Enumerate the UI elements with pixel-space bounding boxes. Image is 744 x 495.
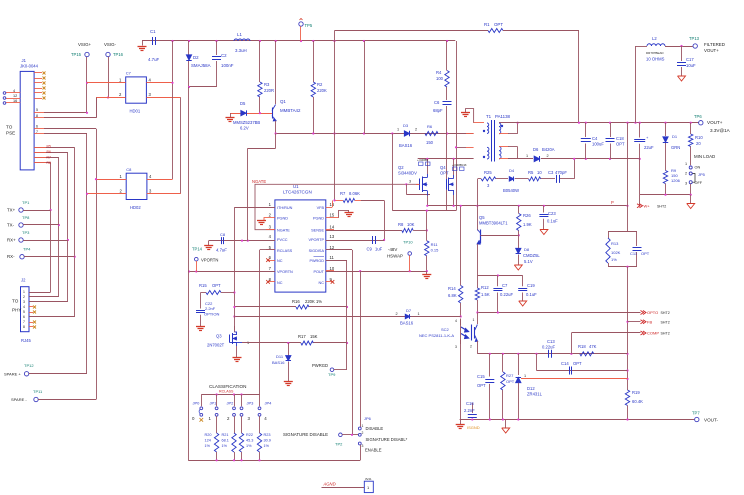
wire Q5 base bbox=[481, 235, 519, 237]
wire NGATE jog to Q2 source network bbox=[405, 183, 407, 185]
ground pin15 PGND bbox=[326, 217, 339, 219]
wire HD02 pin wires bbox=[96, 179, 126, 181]
svg-text:+-19R3B9: +-19R3B9 bbox=[417, 159, 429, 162]
capacitor C5 22uF bbox=[639, 123, 641, 138]
svg-text:VOUT+: VOUT+ bbox=[707, 120, 723, 125]
svg-text:SENSE: SENSE bbox=[311, 229, 324, 233]
svg-text:RX-: RX- bbox=[7, 254, 15, 259]
svg-text:13: 13 bbox=[330, 234, 335, 239]
svg-text:TP7: TP7 bbox=[692, 411, 700, 416]
svg-text:R1: R1 bbox=[484, 22, 490, 27]
svg-text:D4: D4 bbox=[509, 168, 515, 173]
U1 pin stubs orange bbox=[266, 207, 275, 209]
svg-text:TP16: TP16 bbox=[113, 52, 124, 57]
svg-text:VOUT-: VOUT- bbox=[704, 418, 719, 423]
svg-text:TP14: TP14 bbox=[192, 247, 203, 252]
wire SENSE R8 10K bbox=[326, 230, 402, 232]
svg-text:VSIG-: VSIG- bbox=[104, 42, 116, 47]
svg-text:J2: J2 bbox=[21, 278, 26, 283]
svg-text:CLASSIFICATION: CLASSIFICATION bbox=[209, 384, 246, 389]
wire OPTO net y=312.5 bbox=[477, 312, 640, 314]
svg-text:100: 100 bbox=[436, 76, 444, 81]
wire opto top rail y=275.5 bbox=[477, 275, 522, 277]
svg-text:5.1V: 5.1V bbox=[524, 259, 533, 264]
svg-text:2: 2 bbox=[415, 128, 417, 132]
resistor R15 OPT bbox=[201, 292, 207, 294]
svg-text:2: 2 bbox=[23, 295, 25, 299]
svg-text:2.2nF: 2.2nF bbox=[464, 408, 475, 413]
jumper JP1 bbox=[216, 395, 218, 407]
svg-text:6: 6 bbox=[23, 315, 25, 319]
svg-text:MIN LOAD: MIN LOAD bbox=[694, 154, 715, 159]
svg-text:SHT2: SHT2 bbox=[661, 332, 670, 336]
svg-text:0.22uF: 0.22uF bbox=[542, 345, 555, 350]
resistor R9 150 1206 bbox=[663, 171, 667, 184]
wire HD01 pin3 to HD02 pin3 bbox=[180, 98, 182, 194]
ground open C23 bbox=[540, 230, 548, 235]
svg-text:1%: 1% bbox=[264, 444, 270, 448]
ground input filled bbox=[142, 41, 144, 46]
J2 pin1 wire bbox=[29, 292, 36, 294]
wire FB column x=627.5 upper bbox=[627, 123, 629, 232]
svg-text:12: 12 bbox=[13, 94, 17, 98]
svg-text:3: 3 bbox=[455, 345, 457, 349]
svg-text:NC: NC bbox=[277, 281, 283, 285]
test point TP1 TX+ bbox=[19, 208, 23, 212]
wire R1 to output bus bbox=[578, 31, 580, 123]
wire R16 220K bbox=[234, 306, 296, 308]
wire D12 ref to FB column red bbox=[521, 378, 628, 380]
svg-text:22uF: 22uF bbox=[644, 145, 654, 150]
svg-text:470pF: 470pF bbox=[555, 170, 567, 175]
svg-text:C8: C8 bbox=[126, 167, 132, 172]
svg-text:MMSZ5237BB: MMSZ5237BB bbox=[233, 120, 260, 125]
svg-text:TX+: TX+ bbox=[7, 208, 16, 213]
svg-text:DR79?BEAD: DR79?BEAD bbox=[646, 51, 664, 55]
ground PVCC filled bbox=[208, 241, 210, 245]
svg-text:1%: 1% bbox=[611, 257, 617, 262]
test point TP9 PWRGD bbox=[330, 368, 334, 372]
svg-text:10uF: 10uF bbox=[686, 63, 696, 68]
svg-text:C7: C7 bbox=[502, 283, 508, 288]
svg-text:SHT2: SHT2 bbox=[661, 320, 670, 324]
resistor R13 102K bbox=[608, 231, 637, 233]
resistor R2 bbox=[313, 41, 315, 82]
svg-text:D3: D3 bbox=[403, 123, 409, 128]
svg-text:PGND: PGND bbox=[277, 217, 288, 221]
jumper JP0 bbox=[201, 395, 203, 407]
test point TP11 SPARE- bbox=[34, 397, 38, 401]
diode D7 BAS16 wire bbox=[234, 316, 460, 318]
svg-text:150: 150 bbox=[426, 140, 434, 145]
svg-text:NC: NC bbox=[319, 281, 325, 285]
svg-text:D11: D11 bbox=[276, 354, 284, 359]
svg-text:JK0-0044: JK0-0044 bbox=[20, 64, 39, 69]
svg-text:C17: C17 bbox=[686, 57, 694, 62]
svg-text:ITH/RUN: ITH/RUN bbox=[277, 206, 293, 210]
transformer HD02 bbox=[126, 173, 147, 199]
diode D11 BAS16 bbox=[288, 343, 290, 356]
svg-text:R12: R12 bbox=[481, 285, 489, 290]
capacitor C16 2.2nF bbox=[472, 403, 474, 413]
test point TP16 VSIG- bbox=[106, 52, 110, 56]
connector J1 JK0-0044 bbox=[20, 71, 34, 169]
test point TP13 FILTERED VOUT+ bbox=[693, 44, 697, 48]
svg-text:OPT: OPT bbox=[494, 22, 503, 27]
resistor R22 45.3 1% bbox=[241, 416, 243, 433]
svg-text:R4: R4 bbox=[436, 70, 442, 75]
svg-text:P: P bbox=[611, 200, 614, 205]
svg-text:R7: R7 bbox=[47, 155, 51, 159]
svg-text:TP1: TP1 bbox=[22, 200, 30, 205]
svg-text:PGND: PGND bbox=[313, 217, 324, 221]
svg-text:Si3440DV: Si3440DV bbox=[398, 171, 417, 176]
diode D6 B420A bbox=[534, 156, 540, 162]
svg-text:R2: R2 bbox=[317, 82, 323, 87]
svg-text:OPT: OPT bbox=[212, 283, 221, 288]
ground D11 filled bbox=[284, 381, 293, 383]
J2 pin3 wire bbox=[29, 301, 36, 303]
svg-text:HSWAP: HSWAP bbox=[387, 254, 403, 259]
inductor L1 bbox=[234, 39, 250, 41]
svg-text:60.4K: 60.4K bbox=[632, 399, 643, 404]
svg-text:D7: D7 bbox=[406, 308, 412, 313]
ground T1 pin1 bbox=[466, 109, 474, 123]
svg-text:SIGDISA: SIGDISA bbox=[309, 249, 325, 253]
diode D2 zener SMAJ58A bbox=[188, 41, 190, 55]
capacitor C2 bbox=[216, 41, 218, 55]
wire D2-C2 bottom bbox=[189, 86, 217, 88]
test point TP6 VOUT+ bbox=[699, 121, 703, 125]
J1 lower data pins bbox=[34, 147, 75, 149]
svg-text:TP12: TP12 bbox=[24, 363, 34, 368]
wire source rail y=205.8 bbox=[427, 205, 628, 207]
diode D12 ZR431L bbox=[518, 354, 520, 375]
svg-text:1: 1 bbox=[23, 290, 25, 294]
svg-text:B0540W: B0540W bbox=[503, 188, 519, 193]
svg-text:BAS16: BAS16 bbox=[400, 321, 414, 326]
wire output bus VOUT+ y=122.7 dots bbox=[578, 122, 580, 124]
svg-text:R15: R15 bbox=[199, 283, 207, 288]
wire NGATE net bbox=[255, 184, 419, 229]
svg-text:JP0: JP0 bbox=[193, 401, 201, 406]
svg-text:0.22uF: 0.22uF bbox=[500, 292, 513, 297]
capacitor C8 inline bbox=[221, 237, 223, 244]
svg-text:6.8K: 6.8K bbox=[448, 293, 457, 298]
svg-text:R22: R22 bbox=[246, 433, 253, 437]
svg-text:1: 1 bbox=[362, 424, 364, 428]
svg-text:R6: R6 bbox=[47, 150, 51, 154]
test point TP5 bbox=[299, 22, 303, 26]
resistor R11 0.15 bbox=[426, 211, 428, 241]
offpage AGND bbox=[322, 487, 365, 489]
test point TP4 RX- bbox=[20, 255, 24, 259]
wire secondary gnd rail y=159 bbox=[541, 158, 640, 160]
wire T1 secondary top to output bus bbox=[499, 122, 702, 124]
svg-text:14: 14 bbox=[330, 225, 335, 230]
diode D5 zener MMSZ5237BB bbox=[230, 113, 272, 115]
capacitor C13 0.22uF inline bbox=[548, 350, 550, 358]
svg-text:NEC PS2811-1-K-A: NEC PS2811-1-K-A bbox=[419, 333, 454, 338]
svg-text:220K 1%: 220K 1% bbox=[305, 299, 322, 304]
svg-text:AGND: AGND bbox=[323, 482, 336, 487]
wire comp rail y=353.8 bbox=[477, 353, 627, 355]
svg-text:T1: T1 bbox=[486, 114, 492, 119]
wire POUT y=271.1 bbox=[326, 271, 427, 273]
svg-text:JP5: JP5 bbox=[698, 172, 706, 177]
ground ISGND filled bbox=[460, 420, 462, 425]
svg-text:-48V: -48V bbox=[388, 247, 397, 252]
svg-text:C13: C13 bbox=[547, 339, 555, 344]
offpage connector XCOMP bbox=[571, 332, 640, 334]
J1 upper pins with x marks bbox=[34, 72, 42, 74]
svg-text:NGATE: NGATE bbox=[277, 229, 290, 233]
svg-text:124: 124 bbox=[205, 439, 211, 443]
svg-text:2N7002T: 2N7002T bbox=[207, 343, 225, 348]
svg-text:Q5: Q5 bbox=[479, 215, 485, 220]
wire VPORTP y=240 bbox=[326, 240, 384, 242]
svg-text:1%: 1% bbox=[246, 444, 252, 448]
svg-text:4: 4 bbox=[23, 305, 25, 309]
svg-text:RX+: RX+ bbox=[7, 238, 16, 243]
wire main input bus y=41 bbox=[142, 40, 455, 42]
svg-text:CMDZ5L: CMDZ5L bbox=[523, 253, 540, 258]
svg-text:102K: 102K bbox=[611, 250, 621, 255]
capacitor C19 0.1uF bbox=[522, 276, 524, 287]
ground open mid bus bbox=[505, 420, 507, 429]
junction dots main bus bbox=[171, 40, 173, 42]
svg-text:D2: D2 bbox=[193, 55, 199, 60]
svg-text:Q1: Q1 bbox=[280, 99, 286, 104]
resistor R3 bbox=[259, 41, 261, 82]
svg-text:2: 2 bbox=[362, 431, 364, 435]
svg-text:HD01: HD01 bbox=[130, 109, 141, 114]
wire R13 C11 bottom bbox=[608, 266, 637, 268]
wire left rail x=188.2-189 bbox=[188, 87, 190, 460]
resistor R10 20 bbox=[690, 123, 692, 134]
ground open C17 bbox=[678, 76, 686, 81]
svg-text:R8: R8 bbox=[47, 161, 51, 165]
jumper JP6 bbox=[358, 427, 361, 430]
capacitor C18 OPT bbox=[610, 123, 612, 137]
svg-text:0.1uF: 0.1uF bbox=[547, 219, 558, 224]
svg-text:1: 1 bbox=[247, 341, 249, 345]
svg-text:7: 7 bbox=[36, 130, 38, 134]
svg-text:SHT2: SHT2 bbox=[661, 311, 670, 315]
svg-text:JP1: JP1 bbox=[210, 401, 218, 406]
wire Q3 source to ground bbox=[236, 346, 238, 357]
resistor R20 124 1% bbox=[216, 416, 218, 433]
svg-text:MMBTA42: MMBTA42 bbox=[280, 108, 301, 113]
test point TP3 RX+ bbox=[19, 238, 23, 242]
svg-text:1uF: 1uF bbox=[375, 247, 383, 252]
svg-text:47K: 47K bbox=[589, 344, 597, 349]
svg-text:10: 10 bbox=[537, 170, 542, 175]
resistor R12 1.5K bbox=[477, 276, 479, 289]
svg-text:TO: TO bbox=[6, 125, 13, 130]
transistor Q1 MMBTA42 bbox=[275, 41, 277, 104]
wire PVCC feed from input rail bbox=[275, 134, 277, 149]
wire T1 secondary parallel loops bbox=[499, 122, 508, 124]
resistor R1 OPT line bbox=[334, 31, 336, 201]
svg-text:W+: W+ bbox=[644, 203, 651, 208]
snubber network R25 D4 R5 C3 bbox=[477, 179, 479, 206]
svg-text:D8: D8 bbox=[524, 247, 530, 252]
svg-text:R19: R19 bbox=[632, 390, 640, 395]
wire XCOMP drop bbox=[571, 333, 573, 354]
svg-text:R18: R18 bbox=[578, 344, 586, 349]
test point TP15 VSIG+ bbox=[85, 52, 89, 56]
svg-text:R11: R11 bbox=[431, 242, 439, 247]
test point VPORTN bbox=[195, 257, 199, 261]
svg-text:3: 3 bbox=[362, 444, 364, 448]
svg-text:OPT: OPT bbox=[616, 142, 625, 147]
svg-text:C7: C7 bbox=[126, 71, 132, 76]
J2 pin6 wire bbox=[29, 316, 36, 318]
svg-text:SHT2: SHT2 bbox=[657, 204, 666, 208]
svg-text:ENABLE: ENABLE bbox=[365, 448, 382, 453]
svg-text:PWRGD: PWRGD bbox=[309, 259, 324, 263]
svg-text:4.7uF: 4.7uF bbox=[216, 248, 227, 253]
wire HD01 pin4 to top bus bbox=[172, 41, 174, 179]
wire FB column lower bbox=[627, 267, 629, 390]
resistor R18 47K bbox=[580, 352, 594, 356]
svg-text:C14: C14 bbox=[561, 361, 569, 366]
capacitor C23 0.1uF bbox=[543, 206, 545, 213]
svg-text:C3: C3 bbox=[548, 170, 554, 175]
svg-text:PWRGD: PWRGD bbox=[312, 363, 328, 368]
svg-text:PHY: PHY bbox=[12, 307, 21, 312]
svg-text:1206: 1206 bbox=[671, 178, 681, 183]
svg-text:B420A: B420A bbox=[542, 147, 555, 152]
wire bottom bus y=460.3 bbox=[188, 460, 360, 462]
svg-text:1.9K: 1.9K bbox=[523, 222, 532, 227]
wire rail y=210.6 bbox=[392, 210, 456, 212]
diode D8 zener CMDZ5L 5.1V bbox=[518, 235, 520, 248]
test point TP10 -48V HSWAP bbox=[408, 252, 412, 256]
resistor R6 150 bbox=[425, 132, 438, 136]
svg-text:3.3V@1A: 3.3V@1A bbox=[710, 128, 731, 133]
svg-text:4: 4 bbox=[13, 89, 15, 93]
svg-text:C15: C15 bbox=[477, 374, 485, 379]
svg-text:TP11: TP11 bbox=[33, 389, 43, 394]
svg-text:FB: FB bbox=[647, 319, 652, 324]
capacitor C11 OPT bbox=[636, 232, 638, 247]
svg-text:Q2: Q2 bbox=[398, 165, 404, 170]
wire Q1 emitter bus y=133.5 bbox=[276, 133, 474, 135]
ground U1 pin2 PGND bbox=[264, 218, 275, 221]
svg-text:3: 3 bbox=[685, 182, 687, 186]
resistor R23 30.9 1% bbox=[259, 416, 261, 433]
svg-text:BAS16: BAS16 bbox=[272, 360, 285, 365]
svg-text:R10: R10 bbox=[695, 135, 703, 140]
svg-text:16: 16 bbox=[13, 99, 17, 103]
diode D3 BAS16 on bus bbox=[404, 131, 409, 136]
wire R17 15K bbox=[242, 342, 301, 344]
svg-text:1: 1 bbox=[418, 312, 420, 316]
test point TP12 SPARE+ bbox=[24, 372, 28, 376]
svg-text:MMBT3904LT1: MMBT3904LT1 bbox=[479, 221, 508, 226]
svg-text:2.2nF: 2.2nF bbox=[205, 306, 216, 311]
svg-text:U1: U1 bbox=[293, 184, 299, 189]
svg-text:VSIG+: VSIG+ bbox=[78, 42, 91, 47]
ground Q3 filled bbox=[233, 357, 242, 359]
svg-text:15: 15 bbox=[330, 213, 335, 218]
svg-text:8: 8 bbox=[36, 114, 38, 118]
svg-text:PSE: PSE bbox=[6, 131, 15, 136]
wire POUT JP6 column x=360.2 bbox=[360, 271, 362, 427]
svg-text:OPT: OPT bbox=[573, 361, 582, 366]
svg-text:J1: J1 bbox=[22, 58, 27, 63]
svg-text:POUT: POUT bbox=[313, 270, 324, 274]
svg-text:C4: C4 bbox=[592, 136, 598, 141]
svg-text:R7: R7 bbox=[340, 191, 346, 196]
svg-text:SMAJ58A: SMAJ58A bbox=[191, 63, 211, 68]
svg-text:VOUT+: VOUT+ bbox=[704, 48, 719, 53]
svg-text:VPORTN: VPORTN bbox=[277, 270, 293, 274]
svg-text:0.1uF: 0.1uF bbox=[526, 292, 537, 297]
svg-text:BAS16: BAS16 bbox=[399, 143, 413, 148]
svg-text:1: 1 bbox=[473, 318, 475, 322]
wire PWRGD column x=347 bbox=[346, 260, 348, 370]
test point TP7 VOUT- bbox=[695, 417, 699, 421]
capacitor C4 100uF bbox=[585, 123, 587, 137]
svg-text:NGATE: NGATE bbox=[252, 179, 266, 184]
test point TP8 TX- bbox=[19, 223, 23, 227]
svg-text:+-19R3B9-98: +-19R3B9-98 bbox=[452, 164, 467, 167]
wire classification bus y=394.5 bbox=[201, 394, 259, 396]
wire x=456 to T1 pin3 bbox=[456, 41, 458, 211]
wire T1 secondary bottom bbox=[508, 158, 533, 160]
svg-text:TP13: TP13 bbox=[689, 36, 700, 41]
svg-text:R14: R14 bbox=[448, 286, 456, 291]
svg-text:10 OHMS: 10 OHMS bbox=[646, 57, 665, 62]
resistor R7 8.06K bbox=[335, 200, 344, 202]
wire x=364 drop bbox=[364, 41, 366, 134]
ground D5 filled bbox=[226, 117, 235, 119]
J1 pin 8 wire to net B bbox=[34, 117, 44, 119]
wire RCLASS column x=259.75 bbox=[260, 249, 275, 251]
svg-text:220K: 220K bbox=[317, 88, 327, 93]
op-amp U1 LTC4267CGN box bbox=[275, 200, 326, 292]
svg-text:4.7uF: 4.7uF bbox=[148, 57, 160, 62]
wire SIGDISA column x=352 bbox=[326, 249, 352, 251]
J1 left pins bbox=[6, 92, 20, 94]
svg-text:11: 11 bbox=[330, 255, 335, 260]
svg-text:VFB: VFB bbox=[317, 206, 325, 210]
svg-text:4: 4 bbox=[455, 319, 457, 323]
svg-text:220R: 220R bbox=[264, 88, 274, 93]
capacitor C14 OPT inline bbox=[569, 367, 571, 375]
svg-text:2: 2 bbox=[396, 312, 398, 316]
svg-text:SPARE -: SPARE - bbox=[11, 397, 27, 402]
resistor R14 6.8K bbox=[460, 206, 462, 286]
ground C22 filled bbox=[196, 326, 205, 328]
LED D1 GRN bbox=[665, 123, 667, 136]
svg-text:20: 20 bbox=[696, 141, 701, 146]
wire ITH column bbox=[234, 207, 275, 209]
wire secondary ground bus y=419.5 bbox=[460, 419, 695, 421]
svg-text:R6: R6 bbox=[427, 124, 433, 129]
svg-text:1: 1 bbox=[397, 128, 399, 132]
offpage connector XFB bbox=[628, 321, 641, 323]
svg-text:SIGNATURE DISABLE: SIGNATURE DISABLE bbox=[283, 432, 328, 437]
resistor R4 and capacitor C6 column bbox=[446, 41, 448, 71]
svg-text:LTC4267CGN: LTC4267CGN bbox=[283, 190, 312, 195]
svg-text:DISABLE: DISABLE bbox=[366, 426, 384, 431]
svg-text:R25: R25 bbox=[484, 170, 492, 175]
svg-text:C18: C18 bbox=[616, 136, 624, 141]
